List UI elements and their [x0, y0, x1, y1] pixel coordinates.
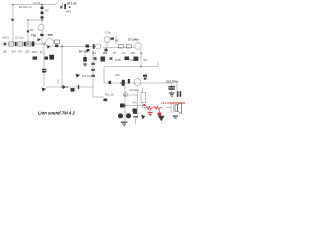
svg-text:47k: 47k: [18, 49, 23, 53]
svg-text:TR1: TR1: [31, 33, 37, 37]
svg-text:220: 220: [115, 73, 120, 77]
svg-text:R6: R6: [115, 39, 119, 43]
svg-text:R7: R7: [113, 51, 117, 55]
svg-text:BT1 9V: BT1 9V: [67, 2, 77, 6]
svg-text:R5 10k: R5 10k: [79, 50, 88, 54]
svg-text:47n: 47n: [132, 101, 137, 105]
svg-text:10k: 10k: [3, 49, 8, 53]
svg-text:R2: R2: [30, 28, 34, 32]
svg-text:Lion sound TM 4 2: Lion sound TM 4 2: [38, 110, 75, 115]
svg-text:R11 10: R11 10: [105, 93, 114, 97]
svg-text:10n: 10n: [130, 58, 135, 62]
svg-text:D1 41: D1 41: [34, 1, 42, 5]
svg-text:IC1: IC1: [103, 51, 108, 55]
svg-text:SW1: SW1: [66, 9, 72, 13]
svg-text:LS1 LOUDSPEAKER: LS1 LOUDSPEAKER: [161, 101, 185, 105]
svg-text:4k7: 4k7: [143, 58, 148, 62]
svg-text:C8 100n: C8 100n: [129, 88, 140, 92]
svg-text:10u: 10u: [100, 58, 105, 62]
svg-text:100n: 100n: [32, 50, 38, 54]
svg-text:1n: 1n: [140, 51, 143, 55]
svg-text:C6: C6: [122, 51, 126, 55]
svg-text:4u7: 4u7: [12, 49, 17, 53]
svg-text:4k7: 4k7: [92, 51, 97, 55]
svg-text:MIC1: MIC1: [3, 36, 10, 40]
svg-text:10k log: 10k log: [82, 74, 91, 78]
svg-text:C10 220u: C10 220u: [166, 80, 179, 84]
svg-text:R1 10k C4: R1 10k C4: [19, 5, 32, 9]
svg-text:22k: 22k: [25, 49, 30, 53]
svg-text:C1 10n: C1 10n: [15, 36, 24, 40]
svg-text:100k: 100k: [115, 58, 121, 62]
svg-text:R3: R3: [45, 9, 49, 13]
svg-text:R8: R8: [131, 51, 135, 55]
svg-text:IC1a: IC1a: [105, 31, 111, 35]
svg-text:C5 100n: C5 100n: [128, 38, 139, 42]
svg-text:TR2: TR2: [48, 33, 54, 37]
